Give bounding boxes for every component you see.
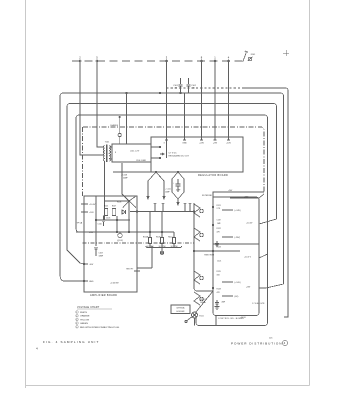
shield box B (67, 104, 277, 251)
junction GND (83, 280, 84, 281)
svg-text:WHITE: WHITE (80, 312, 88, 314)
wire output arrow (160, 153, 164, 155)
wire +24V top (213, 192, 264, 198)
internal bus (212, 197, 214, 291)
transistor Q107 (194, 271, 200, 284)
capacitor C101 (179, 78, 183, 93)
svg-text:C105: C105 (106, 218, 110, 220)
resistor R105 (104, 209, 107, 216)
wire internal 2 (104, 196, 106, 220)
transistor Q102 (118, 233, 122, 237)
pin P4 (189, 203, 192, 212)
resistor R107 (112, 209, 115, 216)
svg-text:GND: GND (182, 143, 187, 145)
svg-text:(+24V): (+24V) (235, 210, 241, 212)
svg-text:R103: R103 (117, 202, 121, 204)
svg-text:1N34A: 1N34A (200, 301, 206, 304)
wire from terminal 5 down to transformer (97, 62, 104, 147)
svg-text:+24V: +24V (89, 212, 94, 214)
svg-text:R128: R128 (217, 289, 221, 291)
chassis wire (167, 87, 243, 89)
legend item 1 (76, 311, 79, 314)
svg-text:+10V: +10V (226, 143, 231, 145)
svg-text:REGULATOR BOARD: REGULATOR BOARD (198, 174, 228, 177)
svg-text:(Q102): (Q102) (117, 240, 123, 242)
svg-text:TWIST WTR: TWIST WTR (204, 255, 215, 257)
svg-text:FILTER BD: FILTER BD (202, 195, 213, 197)
svg-text:R121: R121 (217, 205, 221, 207)
test point tick (134, 270, 140, 272)
wire transformer secondary (110, 147, 113, 159)
pin P2 (162, 203, 165, 212)
svg-text:C109: C109 (99, 253, 103, 255)
wire box C to amplifier (76, 228, 84, 232)
wire bias rail (84, 231, 174, 233)
crystal Y101 (192, 312, 198, 318)
svg-text:CONTROL BD. BOARD: CONTROL BD. BOARD (218, 317, 245, 320)
legend item 5 (76, 326, 79, 329)
svg-text:-10V: -10V (89, 264, 94, 266)
tick -23V (76, 231, 88, 233)
wire regulator bottom bus (113, 171, 151, 173)
wire module outputs (151, 147, 160, 158)
wire box B right to filter board (259, 219, 277, 224)
svg-text:CR101: CR101 (200, 299, 206, 301)
svg-text:TEST PT: TEST PT (126, 269, 134, 271)
filter / control board (194, 197, 259, 316)
legend (76, 306, 120, 329)
svg-text:R122: R122 (217, 228, 221, 230)
transformer T101 (103, 146, 104, 162)
svg-text:+0.05 MV: +0.05 MV (110, 283, 119, 285)
svg-text:C106 1.0MF: C106 1.0MF (136, 160, 147, 162)
transistor Q105 (194, 204, 200, 217)
svg-text:1: 1 (76, 312, 77, 314)
terminal 5 (96, 60, 98, 62)
chassis dash-dot drop (82, 127, 84, 196)
svg-text:RED WITH INTERCONNECTING PLUG: RED WITH INTERCONNECTING PLUG (80, 327, 120, 329)
terminal 8 (201, 60, 203, 62)
svg-text:FIG. 4 SAMPLING UNIT: FIG. 4 SAMPLING UNIT (43, 340, 100, 344)
svg-text:HOLDER: HOLDER (177, 311, 186, 313)
svg-text:1K 1/2W: 1K 1/2W (171, 246, 178, 248)
svg-text:1K 1/2W: 1K 1/2W (159, 246, 166, 248)
shield dash-dot stub (83, 242, 195, 244)
wire terminal 4 down to regulator (228, 62, 230, 137)
svg-text:C110: C110 (98, 224, 102, 226)
svg-text:+ C111: + C111 (165, 189, 171, 191)
svg-text:+ C108: + C108 (121, 175, 127, 177)
svg-text:C119: C119 (217, 220, 221, 222)
pin bar 4 (227, 137, 230, 140)
wire feed (126, 93, 128, 144)
wire internal (95, 196, 97, 246)
rectifier module CR105 (112, 144, 151, 162)
connector rail (130, 211, 194, 213)
wire terminal 1 down to regulator (214, 62, 216, 137)
svg-text:R105: R105 (104, 206, 108, 208)
svg-text:+10.5 V: +10.5 V (244, 257, 252, 259)
page right edge (309, 0, 311, 386)
svg-text:3: 3 (76, 319, 77, 321)
wire out (+24V) (222, 209, 233, 211)
page left edge (25, 0, 27, 388)
wire exit -23V (230, 197, 259, 199)
registration mark (283, 50, 289, 56)
wire box A to amplifier gnd (60, 274, 84, 281)
wire box A right to control board (259, 284, 284, 288)
svg-text:REGULATED DC OUT: REGULATED DC OUT (169, 155, 190, 158)
amplifier board (84, 196, 137, 292)
lamp DS101 (118, 133, 121, 136)
svg-text:-23V: -23V (244, 197, 249, 199)
svg-text:CRYSTAL: CRYSTAL (176, 307, 185, 310)
regulator board U101 (151, 137, 243, 172)
terminal 3 (166, 60, 168, 62)
socket pin (185, 320, 187, 322)
svg-text:VOLTAGE CHART: VOLTAGE CHART (77, 306, 100, 309)
svg-text:1K 1/2W: 1K 1/2W (147, 246, 154, 248)
svg-text:C121: C121 (217, 261, 221, 263)
wire terminal 8 down to regulator (201, 62, 203, 137)
capacitor C110 (102, 216, 106, 227)
pin P3 (184, 203, 187, 212)
svg-text:4: 4 (76, 323, 77, 325)
wire from terminal 3 down (166, 62, 168, 158)
svg-text:-23V: -23V (89, 232, 94, 234)
resistor R110 (173, 232, 175, 238)
wire resistor bottoms (146, 244, 182, 248)
pin bar 3 (165, 137, 168, 140)
pin bar 8 (200, 137, 203, 140)
wire test (137, 246, 152, 268)
crystal holder label box (171, 305, 190, 314)
svg-text:GND: GND (89, 281, 94, 283)
wire from terminal 2 down to transformer (80, 62, 104, 155)
legend item 3 (76, 318, 79, 321)
resistor R114 (149, 212, 151, 238)
svg-text:(-23V): (-23V) (235, 237, 241, 239)
svg-text:-23V: -23V (213, 143, 218, 145)
ground (215, 304, 220, 310)
resistor R109 (161, 212, 163, 238)
svg-text:R109: R109 (156, 237, 160, 239)
svg-text:AMPLIFIER BOARD: AMPLIFIER BOARD (90, 294, 117, 297)
wire row (213, 243, 259, 245)
fan junction 2 with capacitor C110 (177, 171, 179, 173)
shield box A (60, 93, 284, 284)
diode CR103 (122, 210, 126, 214)
capacitor C120 (215, 241, 219, 247)
pin P1 (154, 203, 157, 212)
pin bar 1 (214, 137, 217, 140)
svg-text:5: 5 (76, 327, 77, 329)
top dashed bus wire (72, 60, 243, 62)
page bottom edge (26, 385, 310, 387)
svg-text:2: 2 (76, 316, 77, 318)
transistor Q106 (194, 228, 200, 241)
terminal 2 (79, 60, 81, 62)
svg-text:-23V: -23V (246, 287, 251, 289)
svg-text:YELLOW: YELLOW (80, 319, 90, 321)
junction -10V (83, 263, 84, 264)
svg-text:(0V): (0V) (235, 296, 239, 298)
captions (36, 338, 288, 351)
svg-text:5.7 V DC: 5.7 V DC (169, 153, 178, 155)
wire to node (122, 163, 129, 201)
fan junction 1 (155, 171, 157, 173)
capacitor C109 (94, 247, 98, 256)
pin bar 5 (183, 137, 186, 140)
legend item 2 (76, 314, 79, 317)
ground (161, 248, 163, 252)
svg-text:(+10V): (+10V) (235, 282, 241, 284)
terminal 1 (214, 60, 216, 62)
svg-text:+10.5V: +10.5V (89, 204, 96, 206)
svg-text:+10.5V: +10.5V (246, 223, 253, 225)
svg-text:+: + (173, 183, 174, 185)
svg-text:+24V: +24V (199, 143, 204, 145)
node junction (128, 200, 130, 202)
shield box C (76, 115, 268, 326)
terminal 4 (228, 60, 230, 62)
svg-text:8: 8 (115, 152, 116, 154)
wire out (0V) (222, 295, 233, 297)
capacitor C102 (187, 78, 191, 93)
capacitor C124 (215, 300, 219, 304)
wire feed to regulator (184, 93, 186, 137)
wire box B to amplifier (67, 250, 84, 264)
svg-text:GREEN: GREEN (80, 323, 88, 325)
transistor Q108 (194, 292, 200, 305)
wire control board to return bus (215, 316, 217, 326)
svg-text:R125: R125 (217, 271, 221, 273)
wire cluster (96, 216, 130, 232)
svg-text:ORANGE: ORANGE (80, 315, 90, 318)
separator wire (194, 250, 240, 252)
svg-text:R114A: R114A (143, 236, 149, 239)
diode CR101 wire (196, 291, 213, 312)
svg-text:POWER DISTRIBUTION: POWER DISTRIBUTION (231, 342, 282, 346)
wire out (+10V) (222, 281, 233, 283)
svg-text:1.7 V A.C. HTR.: 1.7 V A.C. HTR. (252, 302, 265, 305)
svg-text:R123: R123 (217, 247, 221, 249)
svg-text:R107: R107 (112, 206, 116, 208)
chassis dash-dot bus (83, 127, 264, 192)
svg-text:TP 5A: TP 5A (77, 222, 83, 225)
wire box C branch to filter board (259, 254, 268, 258)
legend item 4 (76, 322, 79, 325)
svg-text:CHASSIS: CHASSIS (110, 124, 119, 127)
fuse F101 (243, 51, 248, 62)
svg-text:R110: R110 (168, 237, 172, 239)
svg-text:L101 +5.7V: L101 +5.7V (130, 151, 140, 153)
tick +24V (81, 211, 88, 213)
wire transformer to amplifier (104, 161, 106, 196)
wire crystal to return bus (194, 318, 196, 326)
wire out (-23V) (222, 236, 233, 238)
tick +10.5V (81, 203, 88, 205)
